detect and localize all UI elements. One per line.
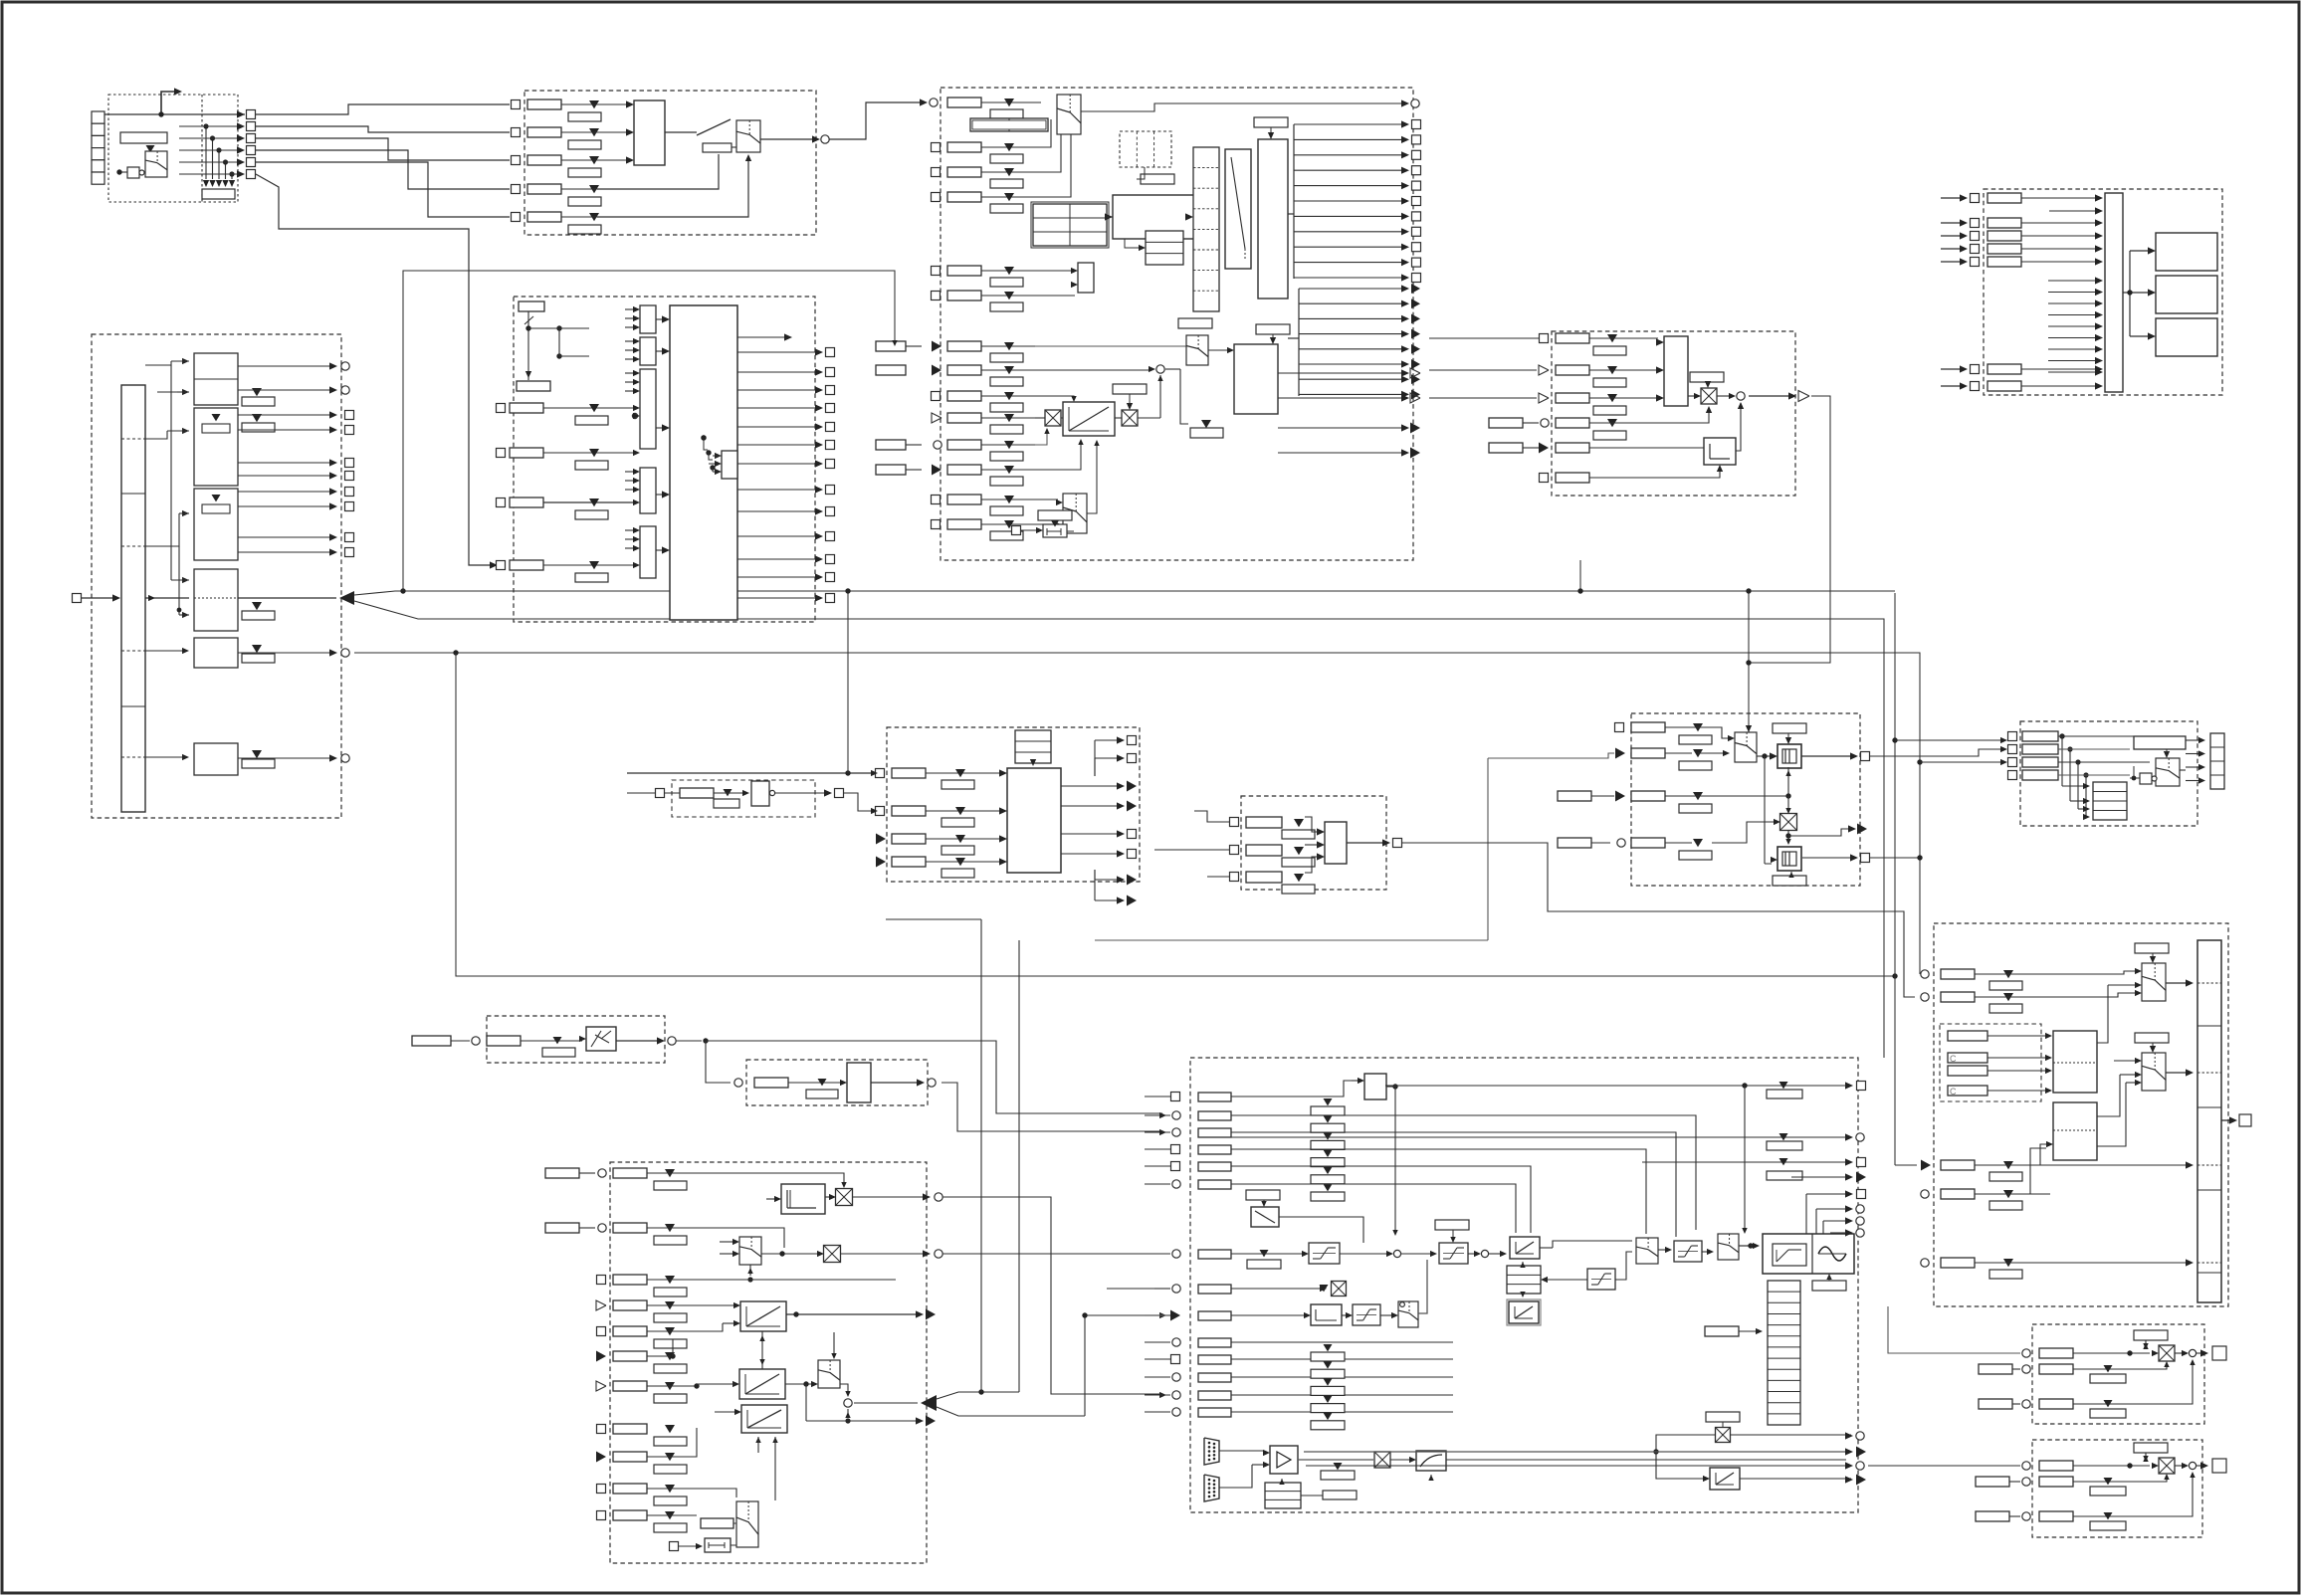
H2 small dashed box (672, 780, 815, 817)
block C control/status word block (941, 88, 1413, 560)
L selector1 out (2166, 982, 2190, 984)
C wires to selector (1035, 342, 1190, 346)
wire M out1 to N row (942, 1197, 1162, 1394)
D wire row5 to limiter (1589, 447, 1704, 449)
D row 6 (1540, 474, 1549, 483)
C xbox1 (1045, 410, 1061, 426)
C small rect under matrix (1141, 174, 1174, 184)
M row10 wire (647, 1489, 736, 1497)
D row 5 (1539, 443, 1549, 454)
M row 11 (597, 1511, 606, 1520)
Q value (553, 1037, 562, 1044)
block N speed controller (1190, 1058, 1858, 1512)
J outside pbox 2 (1558, 838, 1591, 848)
L inner dashed box (1940, 1024, 2041, 1101)
L row 3 (1921, 1160, 1931, 1171)
N row7 input (1172, 1250, 1180, 1258)
I out (1347, 842, 1385, 844)
M bottom selector (736, 1501, 758, 1547)
B row 2 parameter box (527, 127, 561, 137)
block L monitor select (1934, 923, 2228, 1306)
E row 5 (1941, 261, 1963, 263)
J vertical chain (1787, 767, 1789, 796)
I mux (1325, 822, 1347, 864)
merge arrow upper branch to wire594 (354, 591, 1895, 595)
M integrator box (781, 1184, 825, 1214)
E bottom row 1 (1941, 368, 1963, 370)
L selector2 out (2166, 1072, 2190, 1074)
N rg value below (1812, 1281, 1846, 1291)
M bottom pbox (701, 1518, 733, 1528)
M bottom right wire (758, 1457, 764, 1532)
N value above bxbox (1706, 1412, 1740, 1422)
A output connectors (237, 110, 245, 117)
K row1 input wire (1895, 739, 2002, 741)
vertical from wire594 to H (847, 591, 849, 773)
C double rect (970, 118, 1048, 131)
M ramp3 (741, 1405, 787, 1433)
N row2 wire (1231, 1115, 1696, 1230)
H row 3 (876, 834, 886, 845)
N rg divider (1811, 1234, 1813, 1274)
G big decode rect (670, 305, 737, 620)
J value above filter1 (1773, 723, 1806, 733)
E branch wires (2123, 292, 2130, 294)
J row3 long wire (1640, 795, 1781, 797)
M sel1 vertical feed (719, 1173, 721, 1242)
P row2 outer pbox (1976, 1477, 2009, 1487)
N bxbox wires (1656, 1435, 1716, 1452)
L mid rect1 (2053, 1031, 2097, 1093)
M ramp1 (740, 1301, 786, 1331)
N row4 wire (1231, 1149, 1646, 1234)
O row3 up to circle (2176, 1361, 2193, 1404)
B row 1 value (589, 100, 599, 108)
H2 value (724, 789, 732, 796)
K table (2093, 782, 2127, 820)
P row3 (2022, 1512, 2030, 1520)
J xbox (1780, 814, 1797, 831)
N sbox2 (1353, 1304, 1380, 1325)
B row 2 connector (512, 128, 521, 137)
N ramp-down box (1251, 1207, 1279, 1227)
G mux input arrows (625, 308, 635, 310)
wire I out to L row2 (1402, 843, 1915, 997)
Q input pbox (412, 1036, 451, 1046)
merge arrow lower branch to wire622 (354, 601, 1884, 1058)
O row3 tri (2104, 1400, 2113, 1407)
M row 4 (596, 1300, 606, 1310)
1929 vertical junction to K row3 (1917, 759, 1922, 764)
B row 1 connector (512, 100, 521, 109)
N sbox1 out (1340, 1253, 1388, 1255)
B row 5 connector (512, 213, 521, 222)
M ramp2 (739, 1369, 785, 1399)
N selector A (1636, 1238, 1658, 1264)
D xbox (1701, 388, 1717, 404)
N row 1 (1171, 1093, 1180, 1101)
merge V upper branch from 986/1024 verticals (937, 1392, 1019, 1399)
N bottom out xbox (1716, 1428, 1731, 1443)
M row 10 (597, 1485, 606, 1494)
B wire row5 to selector (597, 157, 748, 217)
P row3 outer pbox (1976, 1511, 2009, 1521)
N left edge stubs (1145, 1114, 1170, 1116)
wire D out down to J (1749, 396, 1830, 663)
B row 5 parameter box (527, 212, 561, 222)
N selector B (1718, 1234, 1739, 1260)
H row 2 (876, 807, 885, 816)
L row3 wire (1975, 1164, 2192, 1166)
block B setpoint channel (524, 91, 816, 235)
Q circle in (472, 1037, 480, 1045)
M sel2 out to circle node (840, 1384, 848, 1393)
N selector3 (1398, 1301, 1418, 1327)
M xbox1 (836, 1189, 853, 1206)
P row1 (2022, 1462, 2030, 1470)
K selector (2164, 751, 2170, 758)
block H speed setpoint select (887, 727, 1140, 882)
wire M left stubs (518, 1172, 545, 1174)
P row1 input wire (1868, 1465, 2020, 1467)
F input connector (73, 594, 82, 603)
458 vertical to wire981 (456, 653, 1895, 976)
F block6 (194, 743, 238, 775)
C top rows (947, 98, 981, 107)
D wire row4 to xbox (1589, 410, 1709, 423)
O row1 (2022, 1349, 2030, 1357)
D min-max rect (1664, 336, 1688, 406)
N sbox3 out (1468, 1253, 1477, 1255)
B row 2 value (589, 128, 599, 136)
B mux (634, 100, 665, 165)
N row1 wire to top box (1231, 1081, 1358, 1097)
G right dots (701, 435, 706, 440)
N bottom left dsub1 (1204, 1438, 1219, 1465)
J selector (1735, 732, 1757, 762)
J filter1 out (1801, 755, 1853, 757)
C mid rows (932, 341, 941, 352)
block A terminal input group (108, 95, 238, 202)
C dashed-cell tall rect (1193, 147, 1219, 311)
M bottom sel out (741, 1455, 766, 1523)
N row3 wire (1231, 1132, 1676, 1237)
N value tri rows right (1779, 1082, 1788, 1089)
O row3 outer pbox (1979, 1399, 2012, 1409)
N xbox2 under (1338, 1288, 1340, 1290)
C mid rect (1113, 195, 1196, 239)
C bottom join to wire594 (1579, 560, 1581, 591)
F feed wires (145, 361, 171, 365)
C big rect right (1234, 344, 1278, 414)
M mid vertical (672, 1355, 674, 1357)
G outputs (737, 351, 818, 353)
E row 4 (1941, 248, 1963, 250)
M row1 wire to xbox (647, 1173, 844, 1184)
M sel2 top feed (833, 1332, 835, 1355)
O row2 to xbox (2104, 1365, 2113, 1372)
block K message config (2020, 721, 2197, 826)
N out row3 wire (1642, 1161, 1846, 1163)
N amplifier (1270, 1446, 1298, 1474)
B row 4 connector (512, 185, 521, 194)
B row 4 parameter box (527, 184, 561, 194)
N row9 input (1170, 1310, 1180, 1321)
D limiter box (1704, 438, 1736, 465)
left long vertical to M (392, 652, 394, 654)
N center value chain (1324, 1098, 1333, 1105)
M sel1 up arrow (749, 1265, 751, 1276)
E collect bar (2105, 193, 2123, 392)
K row 2 (2008, 745, 2017, 754)
N rampdown out (1279, 1217, 1363, 1243)
svg-text:C: C (1950, 1054, 1957, 1064)
N satbox (1416, 1451, 1446, 1471)
J xbox out (1787, 831, 1789, 841)
N big table (1768, 1281, 1800, 1425)
wire A2-B2 (256, 126, 510, 132)
block O analog output 1 (2032, 1324, 2204, 1424)
Q out (616, 1040, 661, 1042)
C xbox2 (1122, 410, 1138, 426)
C selector out wire (1081, 103, 1405, 111)
I row 2 (1230, 846, 1239, 855)
C value below (1190, 428, 1223, 438)
J filter2 value (1773, 876, 1806, 886)
N row6 wire (1231, 1184, 1516, 1233)
N long feed wire to table pbox (1241, 1331, 1705, 1345)
B row 3 connector (512, 156, 521, 165)
L row4 wire (1975, 1148, 2046, 1194)
P value top (2134, 1443, 2168, 1453)
F outputs (238, 365, 332, 367)
N table feed (1705, 1326, 1739, 1336)
M xbox2 (824, 1246, 841, 1263)
N rg ramp icon (1773, 1244, 1806, 1266)
wire A3-B3 (256, 138, 510, 160)
C input pboxes left outside (876, 341, 906, 351)
N lower rows group (1172, 1338, 1180, 1346)
J sel top feed arrow (1746, 725, 1752, 732)
N amp table below (1265, 1483, 1301, 1508)
block M field / current limit (610, 1162, 927, 1563)
L tall output bar (2197, 940, 2221, 1302)
E bottom row 2 (1941, 385, 1963, 387)
G small mux column (640, 305, 656, 333)
N ramp r1 (1510, 1237, 1540, 1259)
vertical 1904 from wire596 to L row3 (1894, 593, 1896, 1165)
L value above sel2 (2135, 1033, 2169, 1043)
N sbox mid2 (1587, 1269, 1615, 1290)
O row3 (2022, 1400, 2030, 1408)
M row 6 (596, 1351, 606, 1362)
M ramp1 out (786, 1313, 918, 1315)
H2 pbox (680, 788, 714, 798)
J filter1 (1778, 744, 1801, 768)
N rg sine icon (1818, 1247, 1846, 1261)
H big rect (1007, 768, 1061, 873)
C value above xbox2 (1113, 384, 1147, 394)
K not gate (2140, 773, 2152, 784)
H top table (1015, 730, 1051, 763)
O row1 input wire (1888, 1306, 2020, 1353)
N out row2 wire (1231, 1136, 1846, 1138)
D row 2 (1539, 365, 1549, 375)
K row 4 (2008, 771, 2017, 780)
H input bus wire (627, 772, 874, 774)
C small 2in rect (1078, 263, 1094, 293)
J row4 wire to xbox (1712, 822, 1776, 843)
F block5 (194, 638, 238, 668)
L selector2 (2142, 1053, 2166, 1091)
G top rect (519, 301, 544, 311)
R out (871, 1082, 921, 1084)
wire J filter2 out join (1870, 857, 1920, 859)
N out wires top (1385, 1085, 1846, 1087)
N amp values (1321, 1471, 1355, 1480)
H row 4 (876, 857, 886, 868)
M row 5 (597, 1327, 606, 1336)
F tall bar (121, 385, 145, 812)
vertical 1757 into J selector (1748, 591, 1750, 732)
M ramp1-sel wire (796, 1314, 828, 1359)
C fan2 triangles (1299, 288, 1405, 290)
N row 6 (1172, 1180, 1180, 1188)
D input pbox rows 4-5 (1489, 418, 1523, 428)
M row 2 (598, 1224, 606, 1232)
M ramp3 bottom arrows (755, 1437, 760, 1443)
J row 1 (1615, 723, 1624, 732)
Q icon box (586, 1027, 616, 1051)
M row 1 (598, 1169, 606, 1177)
K output column (2210, 733, 2224, 789)
F block1 (194, 353, 238, 405)
M outer pbox row1 (545, 1168, 579, 1178)
D wire row6 to limiter bottom (1589, 468, 1720, 478)
block J actual value conditioning (1631, 713, 1860, 886)
B row 3 parameter box (527, 155, 561, 165)
not gate A (127, 167, 139, 178)
M row 8 (597, 1425, 606, 1434)
block I ramp select (1241, 796, 1386, 890)
N circle node a (1393, 1250, 1400, 1257)
G top out arrow (737, 336, 786, 338)
B row 3 value (589, 156, 599, 164)
wire F out down to M (350, 653, 597, 1305)
wire A1-B1 (256, 104, 510, 114)
M out circle2 (841, 1253, 926, 1255)
J outside pbox 1 (1558, 791, 1591, 801)
C value above bigrect (1256, 324, 1290, 334)
M circ node up arrow (847, 1409, 849, 1417)
P circle and out (2189, 1462, 2196, 1469)
H row 1 (876, 769, 885, 778)
wire M out2 to N row7 (942, 1253, 1166, 1255)
I row 1 (1230, 818, 1239, 827)
O row2 outer pbox (1979, 1364, 2012, 1374)
N sbox4 out (1702, 1251, 1710, 1253)
E row 3 (1941, 235, 1963, 237)
C row5 into xbox1 bottom (1035, 430, 1047, 445)
C out column rect (1258, 139, 1288, 299)
N ramp generator block (1763, 1234, 1854, 1274)
L sel1 feed wires (2108, 984, 2136, 986)
B row 1 parameter box (527, 100, 561, 109)
L selector1 (2142, 963, 2166, 1001)
M row 3 (597, 1276, 606, 1285)
M selector1 (739, 1237, 761, 1265)
N row 3 (1172, 1128, 1180, 1136)
N selA out (1658, 1249, 1668, 1251)
block R droop (746, 1060, 928, 1105)
wire J filter1 out to K row2 (1870, 749, 2002, 756)
C bottom small pair (1012, 526, 1021, 535)
N r1 out wire (1540, 1247, 1553, 1249)
step arrow (161, 92, 175, 112)
D value above xbox (1690, 372, 1724, 382)
D circle node (1737, 392, 1745, 400)
O updown arrows (2145, 1339, 2147, 1341)
wire B-C (829, 102, 924, 139)
C ramp box (1063, 402, 1115, 436)
E row 2 (1941, 222, 1963, 224)
E out rect 1 (2156, 233, 2217, 271)
N r2 gray outline (1507, 1299, 1541, 1325)
block G command decoder (514, 297, 815, 622)
N row8 input (1172, 1285, 1180, 1293)
C bot sel out wire (1087, 443, 1097, 513)
M long bottom wire (806, 1420, 918, 1422)
vertical 405 up to C (403, 271, 895, 591)
C mux tall (1225, 149, 1251, 269)
wire Q junction to R (676, 1040, 702, 1042)
N row 4 (1171, 1145, 1180, 1154)
J row 2 (1615, 748, 1625, 759)
J row 3 (1615, 791, 1625, 802)
N value above sbox3 (1435, 1220, 1469, 1230)
N sbox4 (1674, 1241, 1702, 1262)
C lower-left rows (932, 267, 941, 276)
B switch contact (665, 131, 697, 133)
C bigrect outputs (1278, 372, 1405, 374)
M wire row2 up (647, 1228, 784, 1248)
svg-text:C: C (1950, 1087, 1957, 1097)
H2 input (656, 789, 665, 798)
B selector out (736, 120, 760, 152)
selector A1 (146, 145, 155, 152)
C output fan to squares (1288, 213, 1294, 215)
M row 7 (596, 1381, 606, 1391)
C selector mid (1186, 335, 1208, 365)
D row 1 (1540, 334, 1549, 343)
R circle in (734, 1079, 742, 1087)
O row2 (2022, 1365, 2030, 1373)
N sbox3 (1439, 1243, 1468, 1264)
N misc out wires (1791, 1176, 1846, 1178)
N row5 wire (1231, 1166, 1531, 1233)
H2 out (775, 792, 826, 794)
L row 5 (1921, 1259, 1929, 1267)
N bottom ramp (1710, 1468, 1740, 1490)
C top selector (1057, 95, 1081, 134)
wire A bus (105, 113, 245, 115)
M row 9 (596, 1452, 606, 1463)
N selB out (1739, 1245, 1752, 1247)
J filter2 out (1801, 857, 1853, 859)
R pbox (754, 1078, 788, 1088)
C row1 input (930, 99, 938, 106)
B row 4 value (589, 185, 599, 193)
